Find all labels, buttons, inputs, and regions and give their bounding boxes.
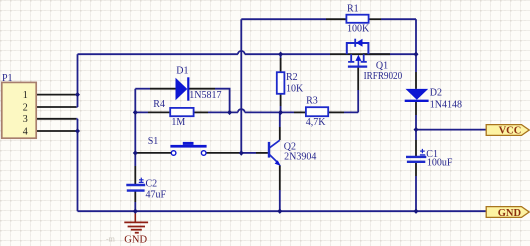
pin: C1 top pin bbox=[415, 140, 417, 157]
wire: D1 left vertical x=135.3 from diode level down to S1-left node bbox=[134, 89, 136, 153]
capacitor C2 bbox=[126, 185, 145, 191]
port VCC bbox=[486, 125, 529, 136]
diode D2 (1N4148) bbox=[405, 89, 429, 101]
svg-text:4: 4 bbox=[23, 127, 28, 138]
port GND bbox=[486, 207, 529, 218]
op: MOSFET Q1 IRFR9020 bbox=[347, 39, 369, 67]
pin: R4 right pin bbox=[194, 111, 208, 113]
pin: C1 bottom pin bbox=[415, 162, 417, 176]
wire: C2 bottom to ground rail bbox=[134, 202, 136, 211]
wire: D1 cathode corner down to node y=112 bbox=[215, 89, 230, 113]
svg-text:GND: GND bbox=[498, 208, 522, 219]
switch S1 bbox=[170, 142, 206, 155]
wire: x=416 C1 bottom to ground rail bbox=[415, 176, 417, 211]
svg-text:IRFR9020: IRFR9020 bbox=[364, 71, 403, 82]
junction: pin1 tie bbox=[75, 92, 80, 97]
wire: Q2 collector riser bbox=[279, 112, 281, 127]
svg-text:VCC: VCC bbox=[499, 125, 522, 136]
svg-text:D2: D2 bbox=[430, 87, 442, 98]
junction: VCC node bbox=[414, 127, 419, 132]
wire: top rail y=19.2 from vertical x=241.3 to vertical x=416 bbox=[241, 18, 416, 20]
pin: C2 bottom pin black bbox=[134, 191, 136, 203]
svg-text:C2: C2 bbox=[146, 178, 158, 189]
pin: R2 top pin bbox=[280, 58, 282, 72]
pin: S1 right wire black bbox=[206, 152, 241, 154]
wire: stub pin1 to vertical bbox=[76, 95, 77, 131]
svg-text:R2: R2 bbox=[286, 72, 298, 83]
resistor R4 bbox=[170, 108, 193, 116]
wire: gate riser x=358.2 from Q1 gate to R3 wire bbox=[357, 90, 359, 112]
wire: vertical x=241.3 from top rail down to S1-right node bbox=[240, 19, 242, 153]
wire: D1 anode wire bbox=[135, 88, 150, 90]
connector P1 bbox=[2, 82, 36, 138]
wire: R2 bottom stub to node y=112 bbox=[280, 106, 282, 112]
svg-text:1: 1 bbox=[23, 90, 28, 101]
transistor Q2 2N3904 bbox=[269, 140, 281, 166]
svg-text:3: 3 bbox=[23, 114, 28, 125]
svg-text:GND: GND bbox=[124, 235, 147, 246]
pin: P1 pin 2 line bbox=[36, 106, 76, 108]
wire: ground rail y=211.8 bbox=[78, 210, 487, 212]
wire: VCC stub y=129.6 bbox=[416, 129, 487, 131]
pin: R2 bottom pin bbox=[280, 94, 282, 106]
resistor R1 bbox=[346, 15, 368, 23]
pin: Q2 emitter pin black bbox=[279, 166, 281, 191]
wire: S1 right node to Q2 base bbox=[241, 152, 256, 154]
wire hop: y=112 over vertical x=241.3 bbox=[238, 109, 245, 112]
C1 plus sign bbox=[420, 149, 425, 155]
wire: Q2 emitter to ground rail bbox=[279, 190, 281, 211]
svg-text:-m: -m bbox=[106, 235, 116, 244]
junction: Q2 emitter on ground rail bbox=[277, 209, 282, 214]
junction: S1 right node bbox=[239, 150, 244, 155]
junction: C1 bottom on ground rail bbox=[414, 209, 419, 214]
wire: right vertical x=416 from top rail to D2 bbox=[415, 19, 417, 72]
pin: P1 pin 3 line bbox=[36, 118, 76, 120]
pin: R1 left pin bbox=[326, 18, 346, 20]
wire: mid rail y=54.2 from P1 pins1-2 to node x=416, hop over x=241.3 bbox=[78, 53, 417, 55]
junction: S1 left node bbox=[133, 150, 138, 155]
ground symbol GND bbox=[124, 211, 148, 232]
capacitor C1 bbox=[406, 157, 426, 162]
pin: Q2 base pin black bbox=[256, 152, 268, 154]
junction: R2 top on mid rail bbox=[278, 52, 283, 57]
svg-text:1M: 1M bbox=[171, 117, 185, 128]
pin: P1 pin 1 line bbox=[36, 94, 76, 96]
pin: Q1 gate pin black bbox=[357, 67, 359, 90]
junction: pin4 tie bbox=[75, 128, 80, 133]
svg-text:2N3904: 2N3904 bbox=[284, 152, 316, 163]
pin: P1 pin 4 line bbox=[36, 130, 76, 132]
pin: D2 anode pin bbox=[415, 72, 417, 89]
svg-text:R3: R3 bbox=[306, 96, 318, 107]
pin: R4 left pin bbox=[148, 111, 170, 113]
Q1 substrate arrow bbox=[355, 55, 361, 61]
diode D1 (1N5817) bbox=[176, 77, 189, 100]
pin: R3 right pin bbox=[328, 111, 344, 113]
svg-text:R4: R4 bbox=[153, 99, 165, 110]
svg-text:S1: S1 bbox=[148, 136, 159, 147]
svg-text:D1: D1 bbox=[176, 66, 188, 77]
junction: D1 left / R4 node bbox=[133, 110, 138, 115]
pin: Q1 source/drain black segments on mid rail bbox=[330, 53, 390, 55]
Q1 body diode arrow bbox=[356, 39, 363, 47]
svg-text:R1: R1 bbox=[347, 4, 359, 15]
pin: R3 left pin bbox=[294, 111, 306, 113]
wire: C2 top stub bbox=[134, 153, 136, 166]
pin: R1 right pin bbox=[369, 18, 381, 20]
svg-text:1N4148: 1N4148 bbox=[430, 100, 462, 111]
svg-text:2: 2 bbox=[23, 102, 28, 113]
resistor R3 bbox=[306, 107, 328, 116]
pin: Q2 collector pin black bbox=[279, 127, 281, 140]
wire hop: y=54.2 over vertical x=241.3 bbox=[238, 51, 245, 54]
svg-text:1N5817: 1N5817 bbox=[189, 90, 221, 101]
svg-text:4,7K: 4,7K bbox=[306, 117, 327, 128]
pin: D1 cathode pin bbox=[188, 88, 215, 90]
C2 plus sign bbox=[139, 178, 144, 183]
svg-text:100K: 100K bbox=[347, 23, 370, 34]
svg-text:100uF: 100uF bbox=[427, 157, 453, 168]
svg-text:Q1: Q1 bbox=[376, 60, 388, 71]
wire: R2 top stub to mid rail bbox=[280, 54, 282, 58]
svg-text:10K: 10K bbox=[286, 84, 304, 95]
wire: x=416 from D2 to VCC node bbox=[415, 115, 417, 140]
junction: GND symbol on rail bbox=[133, 209, 138, 214]
pin: S1 left wire black bbox=[135, 152, 171, 154]
junction: D1 right on node y=112 bbox=[227, 110, 232, 115]
pin: D2 cathode pin bbox=[415, 101, 417, 115]
wire: vertical x=77.5 pins3-4 tie going down to ground rail bbox=[77, 119, 79, 211]
svg-text:P1: P1 bbox=[2, 73, 13, 84]
resistor R2 bbox=[277, 72, 285, 94]
junction: R2 bottom / Q2 collector bbox=[278, 110, 283, 115]
svg-text:47uF: 47uF bbox=[146, 190, 167, 201]
wire: node wire y=112 from x=135.3 to R4, R4 to R3, to gate riser, hop over x=241.3 bbox=[135, 111, 358, 113]
pin: C2 top pin black bbox=[134, 166, 136, 185]
junction: Q1 drain / R1 right bbox=[414, 52, 419, 57]
wire: vertical x=77.5 pins1-2 tie going up to mid rail bbox=[77, 54, 79, 107]
pin: D1 anode pin bbox=[150, 88, 176, 90]
